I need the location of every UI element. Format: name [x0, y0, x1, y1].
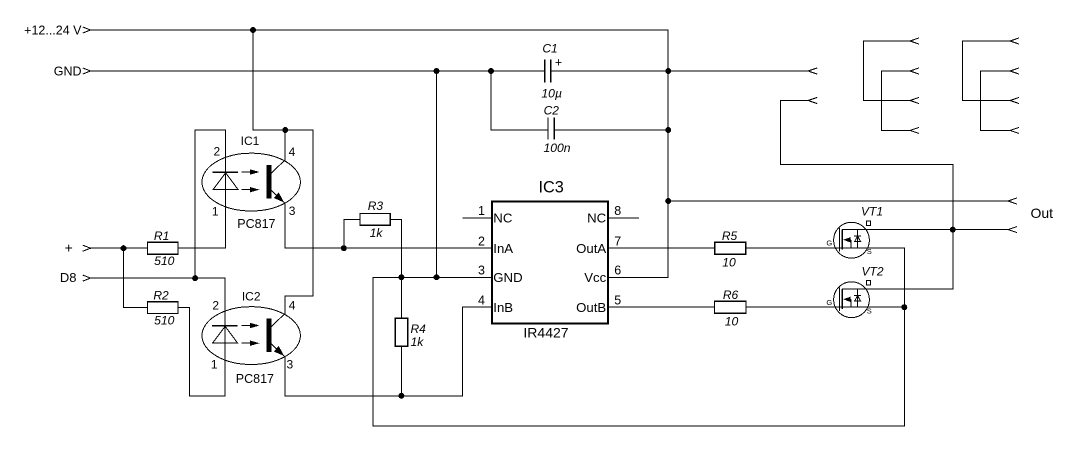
svg-text:OutB: OutB [576, 300, 606, 315]
svg-text:InA: InA [493, 241, 513, 256]
svg-text:Out: Out [1031, 205, 1054, 221]
svg-text:10µ: 10µ [541, 87, 562, 101]
svg-text:S: S [867, 247, 872, 256]
svg-text:7: 7 [614, 234, 621, 248]
svg-text:3: 3 [289, 204, 296, 218]
svg-text:4: 4 [289, 145, 296, 159]
svg-text:S: S [867, 307, 872, 316]
svg-text:1: 1 [478, 204, 485, 218]
svg-text:+12...24 V: +12...24 V [24, 24, 82, 38]
svg-text:IR4427: IR4427 [523, 325, 568, 341]
svg-text:1k: 1k [370, 226, 384, 240]
svg-text:2: 2 [212, 298, 219, 312]
svg-text:8: 8 [614, 204, 621, 218]
svg-text:4: 4 [478, 293, 485, 307]
svg-text:Vcc: Vcc [584, 270, 606, 285]
svg-text:C2: C2 [544, 104, 560, 118]
svg-text:GND: GND [493, 270, 522, 285]
svg-text:6: 6 [614, 263, 621, 277]
svg-text:1k: 1k [411, 335, 425, 349]
svg-text:PC817: PC817 [236, 372, 274, 386]
svg-text:10: 10 [725, 314, 739, 328]
svg-text:510: 510 [154, 313, 175, 327]
svg-text:NC: NC [493, 211, 513, 226]
svg-text:3: 3 [478, 263, 485, 277]
svg-text:IC2: IC2 [242, 290, 261, 304]
svg-text:R6: R6 [723, 288, 739, 302]
svg-text:PC817: PC817 [237, 217, 275, 231]
svg-text:IC3: IC3 [539, 179, 564, 197]
svg-text:5: 5 [614, 293, 621, 307]
svg-text:IC1: IC1 [241, 134, 260, 148]
svg-text:10: 10 [722, 256, 736, 270]
svg-text:1: 1 [211, 358, 218, 372]
svg-text:VT1: VT1 [861, 204, 883, 218]
svg-text:InB: InB [493, 300, 513, 315]
svg-text:G: G [826, 239, 832, 248]
svg-text:VT2: VT2 [861, 265, 883, 279]
svg-text:4: 4 [289, 298, 296, 312]
svg-text:2: 2 [214, 144, 221, 158]
svg-text:R4: R4 [411, 322, 427, 336]
svg-text:G: G [826, 298, 832, 307]
svg-text:GND: GND [54, 64, 82, 78]
svg-text:100n: 100n [543, 141, 570, 155]
svg-text:510: 510 [154, 254, 175, 268]
svg-text:R5: R5 [722, 229, 738, 243]
svg-text:D8: D8 [60, 270, 77, 285]
svg-text:NC: NC [587, 211, 607, 226]
svg-text:1: 1 [212, 205, 219, 219]
svg-text:R1: R1 [154, 229, 169, 243]
svg-text:OutA: OutA [576, 241, 606, 256]
svg-text:3: 3 [287, 358, 294, 372]
svg-text:C1: C1 [542, 42, 557, 56]
svg-text:R2: R2 [153, 288, 169, 302]
svg-text:+: + [555, 56, 562, 70]
svg-text:R3: R3 [368, 199, 384, 213]
svg-text:2: 2 [478, 234, 485, 248]
svg-text:+: + [65, 240, 73, 256]
